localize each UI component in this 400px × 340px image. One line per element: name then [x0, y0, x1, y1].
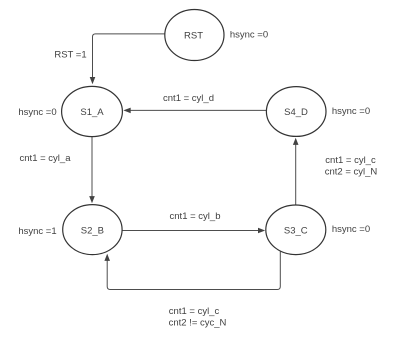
svg-text:hsync =0: hsync =0: [332, 224, 370, 235]
svg-text:cnt1 = cyl_c: cnt1 = cyl_c: [325, 155, 376, 166]
label hsync =1 (S2_B): [18, 226, 56, 237]
wire S4_D to S1_A: [131, 109, 267, 111]
label cnt1 = cyl_c (right): [325, 155, 376, 166]
svg-text:S2_B: S2_B: [81, 225, 104, 236]
state S4_D: [266, 87, 326, 137]
svg-text:RST =1: RST =1: [54, 50, 86, 61]
label cnt1 = cyl_a: [20, 153, 72, 164]
state S1_A: [62, 86, 123, 136]
arrowhead into S3_C left: [258, 228, 265, 234]
label cnt2 != cyc_N (bottom): [169, 318, 227, 329]
arrowhead into S2_B top: [89, 196, 95, 203]
svg-text:S3_C: S3_C: [284, 226, 308, 237]
svg-text:cnt1 = cyl_d: cnt1 = cyl_d: [163, 93, 214, 104]
label cnt1 = cyl_c (bottom): [169, 306, 220, 317]
wire S3_C to S2_B (bottom return loop): [107, 251, 280, 290]
arrowhead into S4_D bottom: [293, 138, 299, 145]
label cnt2 = cyl_N (right): [325, 167, 378, 178]
label hsync =0 (S4_D): [332, 106, 370, 117]
wire S1_A to S2_B: [91, 137, 93, 197]
svg-text:S4_D: S4_D: [284, 107, 308, 118]
svg-text:hsync =0: hsync =0: [230, 30, 268, 41]
svg-text:cnt1 = cyl_c: cnt1 = cyl_c: [169, 306, 220, 317]
state RST: [165, 10, 224, 61]
label cnt1 = cyl_b: [170, 211, 221, 222]
label RST =1: [54, 50, 86, 61]
label hsync =0 (S3_C): [332, 224, 370, 235]
arrowhead into S1_A top: [90, 77, 96, 84]
wire S3_C to S4_D: [295, 145, 297, 206]
wire S2_B to S3_C: [123, 230, 259, 232]
svg-text:RST: RST: [184, 31, 203, 42]
arrowhead into S2_B bottom: [104, 254, 110, 261]
state S2_B: [63, 205, 122, 255]
svg-text:cnt1 = cyl_b: cnt1 = cyl_b: [170, 211, 221, 222]
arrowhead into S1_A right: [123, 108, 130, 114]
svg-text:cnt2 = cyl_N: cnt2 = cyl_N: [325, 167, 378, 178]
svg-text:S1_A: S1_A: [80, 107, 104, 118]
label cnt1 = cyl_d: [163, 93, 214, 104]
svg-text:cnt2 != cyc_N: cnt2 != cyc_N: [169, 318, 227, 329]
svg-text:hsync =0: hsync =0: [18, 107, 56, 118]
wire RST to S1_A (left then down): [93, 34, 165, 78]
label hsync =0 (RST): [230, 30, 268, 41]
svg-text:cnt1 = cyl_a: cnt1 = cyl_a: [20, 153, 72, 164]
svg-text:hsync =0: hsync =0: [332, 106, 370, 117]
state S3_C: [266, 205, 326, 255]
svg-text:hsync =1: hsync =1: [18, 226, 56, 237]
label hsync =0 (S1_A): [18, 107, 56, 118]
